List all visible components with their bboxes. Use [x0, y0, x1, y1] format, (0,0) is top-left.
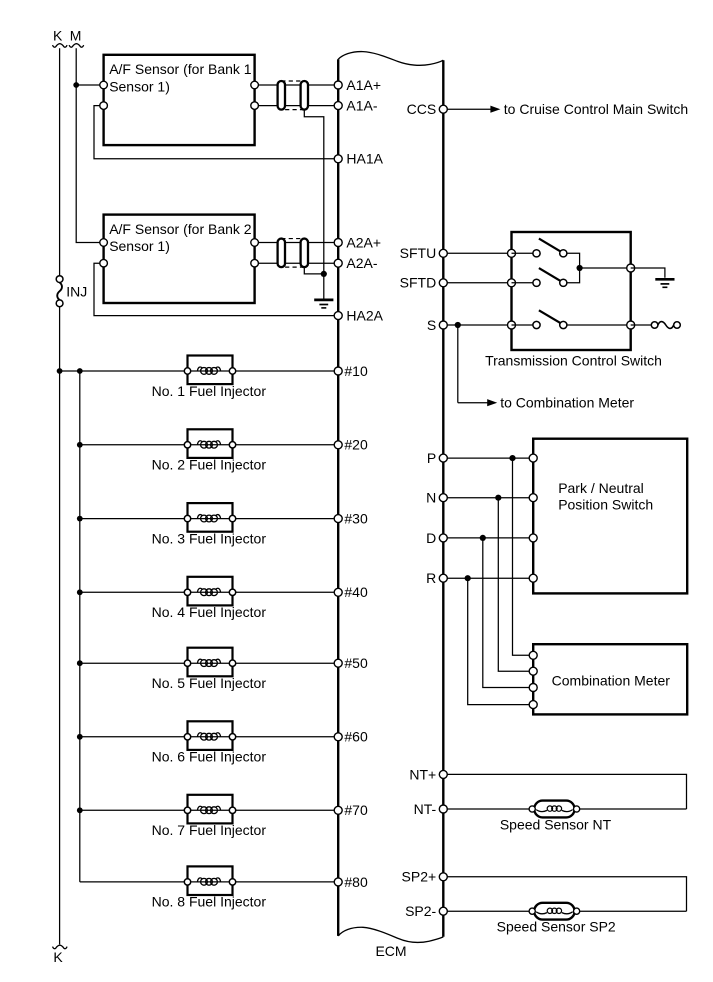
- switch SFTD right contact: [560, 279, 567, 286]
- ECM pin CCS: [407, 101, 448, 117]
- wire tie to TCS ground: [580, 267, 631, 269]
- wire CCS to arrow: [443, 106, 500, 113]
- junction bus row #20: [77, 442, 83, 448]
- arrow to combination meter: [458, 399, 497, 406]
- svg-text:K: K: [53, 28, 63, 44]
- svg-text:SP2+: SP2+: [402, 869, 437, 885]
- svg-text:P: P: [427, 450, 436, 466]
- fuel injector No.6: [152, 721, 267, 764]
- wire row #60: [80, 736, 338, 738]
- junction D row: [480, 535, 486, 541]
- transmission control switch box: [512, 232, 631, 350]
- sensor1 pin right bottom: [251, 102, 259, 110]
- combination meter box: [533, 644, 687, 714]
- wire K vertical (top section, into INJ fuse): [59, 48, 61, 276]
- park/neutral position switch box: [533, 439, 687, 594]
- sensor1 pin left top: [100, 81, 108, 89]
- wire row #30: [80, 518, 338, 520]
- fuel injector No.4: [152, 577, 267, 620]
- wire K vertical (below INJ fuse to bottom break): [59, 307, 61, 945]
- svg-text:SFTD: SFTD: [400, 275, 437, 291]
- ECM pin HA2A: [334, 308, 383, 324]
- wire S contact to output: [563, 324, 630, 326]
- sensor2 pin right bottom: [251, 259, 259, 267]
- svg-text:Transmission Control Switch: Transmission Control Switch: [485, 352, 662, 368]
- svg-text:A2A-: A2A-: [346, 255, 377, 271]
- TCS S output pin: [627, 321, 635, 329]
- ECM pin A2A-: [334, 255, 378, 271]
- node K (top label): [53, 28, 63, 44]
- wire row #20: [80, 444, 338, 446]
- svg-text:No. 1 Fuel Injector: No. 1 Fuel Injector: [152, 383, 267, 399]
- svg-text:#70: #70: [344, 802, 368, 818]
- junction P row: [509, 455, 515, 461]
- node M (top label): [70, 28, 82, 44]
- svg-text:SFTU: SFTU: [400, 245, 437, 261]
- shield capsule bank1 left: [278, 81, 285, 110]
- switch SFTU blade: [539, 239, 561, 252]
- junction S row: [455, 322, 461, 328]
- sensor1 pin left bottom: [100, 102, 108, 110]
- ECM pin NT-: [414, 801, 448, 817]
- wire R branch to combination meter: [468, 578, 534, 704]
- wire NT- row: [443, 808, 686, 810]
- junction on K at #10 row: [57, 368, 63, 374]
- wire row #80: [80, 881, 338, 883]
- A/F sensor bank1 box: [104, 55, 255, 145]
- PNP switch pin P: [529, 454, 537, 462]
- wire row #50: [80, 662, 338, 664]
- wire from fuse K to injector bus: [60, 370, 80, 372]
- wire SFTU row: [443, 252, 511, 254]
- svg-text:Combination Meter: Combination Meter: [552, 672, 671, 688]
- fuel injector No.1: [152, 356, 267, 399]
- injector supply bus wire: [79, 371, 81, 882]
- shield capsule bank2 left: [278, 239, 285, 268]
- wire N row: [443, 497, 533, 499]
- svg-text:No. 2 Fuel Injector: No. 2 Fuel Injector: [152, 457, 267, 473]
- ECM pin #80: [334, 874, 368, 890]
- junction N row: [495, 495, 501, 501]
- shield drain wire bank1 to ground: [304, 110, 324, 300]
- fuse INJ: [56, 276, 87, 307]
- svg-text:#40: #40: [344, 584, 368, 600]
- wire SP2- row: [443, 910, 686, 912]
- svg-text:HA1A: HA1A: [346, 151, 383, 167]
- svg-text:Sensor 1): Sensor 1): [109, 238, 170, 254]
- wire A2A- row: [255, 262, 339, 264]
- node K (bottom label): [53, 949, 63, 965]
- wire SFTD row: [443, 282, 511, 284]
- svg-text:CCS: CCS: [407, 101, 437, 117]
- TCS pin SFTD: [508, 279, 516, 287]
- switch S left contact: [533, 321, 540, 328]
- wire P row: [443, 457, 533, 459]
- combination meter pin (P): [529, 651, 537, 659]
- switch SFTU left contact: [533, 250, 540, 257]
- tie junction: [577, 265, 583, 271]
- ECM top wavy edge: [338, 52, 443, 66]
- ECM pin #50: [334, 655, 368, 671]
- switch contact wire S: [512, 324, 537, 326]
- svg-text:Speed Sensor NT: Speed Sensor NT: [500, 817, 612, 833]
- wire D row: [443, 537, 533, 539]
- wire S output: [631, 324, 652, 326]
- svg-text:M: M: [70, 28, 82, 44]
- combination meter pin (D): [529, 684, 537, 692]
- ECM caption: [375, 943, 406, 959]
- TCS caption: [485, 352, 662, 368]
- ECM pin R: [426, 570, 447, 586]
- ECM pin SFTD: [400, 275, 448, 291]
- ground (TCS): [655, 279, 674, 287]
- switch SFTU right contact: [560, 250, 567, 257]
- junction on wire M: [73, 82, 79, 88]
- ECM pin A1A+: [334, 77, 381, 93]
- svg-text:ECM: ECM: [375, 943, 406, 959]
- TCS pin S: [508, 321, 516, 329]
- wire A2A+ row: [255, 242, 339, 244]
- A/F sensor bank2 box: [104, 215, 255, 303]
- TCS ground output pin: [627, 264, 635, 272]
- wire A1A+ row: [255, 84, 339, 86]
- svg-text:HA2A: HA2A: [346, 308, 383, 324]
- ECM pin #10: [334, 363, 368, 379]
- ECM right edge: [442, 60, 444, 937]
- shielded cable symbol (bank2): dashed shield box: [281, 239, 304, 268]
- wire S junction down to combination meter arrow: [457, 325, 459, 403]
- switch contact wire SFTD: [512, 282, 537, 284]
- svg-text:A2A+: A2A+: [346, 234, 381, 250]
- fuel injector No.5: [152, 648, 267, 691]
- ECM pin NT+: [409, 766, 447, 782]
- svg-text:D: D: [426, 530, 436, 546]
- wire row #10: [80, 370, 338, 372]
- ECM left edge: [337, 59, 339, 936]
- PNP switch pin N: [529, 494, 537, 502]
- svg-text:NT+: NT+: [409, 766, 436, 782]
- ECM pin #70: [334, 802, 368, 818]
- ECM pin A2A+: [334, 234, 381, 250]
- SFTU-SFTD common tie wire: [563, 253, 579, 282]
- wire D branch to combination meter: [483, 538, 533, 688]
- wire-break symbol above bottom K: [53, 945, 68, 948]
- wire M vertical: [76, 48, 103, 242]
- svg-text:#50: #50: [344, 655, 368, 671]
- switch S blade: [539, 310, 561, 323]
- wire row #70: [80, 809, 338, 811]
- svg-text:to Cruise Control Main Switch: to Cruise Control Main Switch: [504, 101, 688, 117]
- svg-text:#60: #60: [344, 729, 368, 745]
- ECM pin N: [426, 490, 447, 506]
- shield drain wire bank2: [304, 267, 324, 274]
- label to Combination Meter: [500, 394, 634, 410]
- speed sensor SP2: [497, 903, 616, 935]
- sensor2 pin left top: [100, 239, 108, 247]
- svg-text:Position Switch: Position Switch: [558, 496, 653, 512]
- svg-text:A1A-: A1A-: [346, 98, 377, 114]
- ECM pin D: [426, 530, 447, 546]
- TCS pin SFTU: [508, 249, 516, 257]
- sensor2 pin left bottom: [100, 259, 108, 267]
- junction bus row #50: [77, 660, 83, 666]
- svg-text:No. 6 Fuel Injector: No. 6 Fuel Injector: [152, 749, 267, 765]
- fuel injector No.2: [152, 429, 267, 472]
- ECM pin #20: [334, 437, 368, 453]
- PNP switch pin R: [529, 574, 537, 582]
- svg-text:A/F Sensor (for Bank 2: A/F Sensor (for Bank 2: [109, 221, 252, 237]
- fuel injector No.8: [152, 866, 267, 909]
- wire N branch to combination meter: [498, 498, 533, 672]
- ECM pin #40: [334, 584, 368, 600]
- junction shield drains: [321, 271, 327, 277]
- label to Cruise Control Main Switch: [504, 101, 688, 117]
- wire sensor2 ground tail to HA2A: [94, 263, 338, 315]
- wire A1A- row: [255, 105, 339, 107]
- switch S right contact: [560, 321, 567, 328]
- ECM pin A1A-: [334, 98, 378, 114]
- svg-text:to Combination Meter: to Combination Meter: [500, 394, 634, 410]
- svg-text:K: K: [53, 949, 63, 965]
- svg-text:S: S: [427, 317, 436, 333]
- switch SFTD blade: [539, 268, 561, 281]
- inline connector wave (S output): [651, 322, 680, 329]
- wire to TCS ground: [631, 268, 665, 278]
- PNP switch pin D: [529, 534, 537, 542]
- svg-text:No. 3 Fuel Injector: No. 3 Fuel Injector: [152, 530, 267, 546]
- junction bus row #10: [77, 368, 83, 374]
- combination meter pin (R): [529, 701, 537, 709]
- ECM pin SP2+: [402, 869, 448, 885]
- shield capsule bank2 right: [301, 239, 308, 268]
- wire-break symbol under M: [69, 44, 84, 47]
- wire R row: [443, 577, 533, 579]
- wire sensor1 ground tail to HA1A: [94, 106, 338, 159]
- svg-text:#20: #20: [344, 437, 368, 453]
- fuel injector No.3: [152, 503, 267, 546]
- speed sensor NT: [500, 801, 612, 833]
- ECM bottom wavy edge: [338, 927, 443, 942]
- wire M-junction to sensor1 pin: [76, 84, 103, 86]
- svg-text:#30: #30: [344, 511, 368, 527]
- svg-text:No. 8 Fuel Injector: No. 8 Fuel Injector: [152, 894, 267, 910]
- svg-text:INJ: INJ: [66, 283, 87, 299]
- junction bus row #70: [77, 807, 83, 813]
- junction bus row #60: [77, 734, 83, 740]
- combination meter pin (N): [529, 667, 537, 675]
- svg-text:A1A+: A1A+: [346, 77, 381, 93]
- svg-text:R: R: [426, 570, 436, 586]
- svg-text:A/F Sensor (for Bank 1: A/F Sensor (for Bank 1: [109, 61, 252, 77]
- fuel injector No.7: [152, 795, 267, 838]
- svg-text:No. 5 Fuel Injector: No. 5 Fuel Injector: [152, 675, 267, 691]
- ECM pin #60: [334, 729, 368, 745]
- shielded cable symbol (bank1): dashed shield box: [281, 81, 304, 110]
- ECM pin SP2-: [405, 903, 447, 919]
- svg-text:Sensor 1): Sensor 1): [109, 78, 170, 94]
- ECM pin S: [427, 317, 447, 333]
- wire P branch to combination meter: [513, 458, 534, 655]
- ECM pin SFTU: [400, 245, 448, 261]
- sensor1 pin right top: [251, 81, 259, 89]
- ECM pin HA1A: [334, 151, 383, 167]
- ECM pin P: [427, 450, 447, 466]
- ground (sensor shields): [314, 300, 333, 308]
- svg-text:#10: #10: [344, 363, 368, 379]
- svg-text:NT-: NT-: [414, 801, 437, 817]
- svg-text:No. 7 Fuel Injector: No. 7 Fuel Injector: [152, 822, 267, 838]
- wire-break symbol under K: [53, 44, 68, 47]
- svg-text:SP2-: SP2-: [405, 903, 436, 919]
- svg-text:Speed Sensor SP2: Speed Sensor SP2: [497, 919, 616, 935]
- wire row #40: [80, 591, 338, 593]
- svg-text:#80: #80: [344, 874, 368, 890]
- wire S row: [443, 324, 511, 326]
- wire SP2+ loop: [443, 877, 686, 911]
- junction R row: [465, 575, 471, 581]
- wire NT+ loop: [443, 774, 686, 809]
- shield capsule bank1 right: [301, 81, 308, 110]
- sensor2 pin right top: [251, 239, 259, 247]
- switch contact wire SFTU: [512, 252, 537, 254]
- ECM pin #30: [334, 511, 368, 527]
- junction bus row #30: [77, 516, 83, 522]
- switch SFTD left contact: [533, 279, 540, 286]
- svg-text:Park / Neutral: Park / Neutral: [558, 480, 644, 496]
- junction bus row #40: [77, 589, 83, 595]
- svg-text:No. 4 Fuel Injector: No. 4 Fuel Injector: [152, 604, 267, 620]
- svg-text:N: N: [426, 490, 436, 506]
